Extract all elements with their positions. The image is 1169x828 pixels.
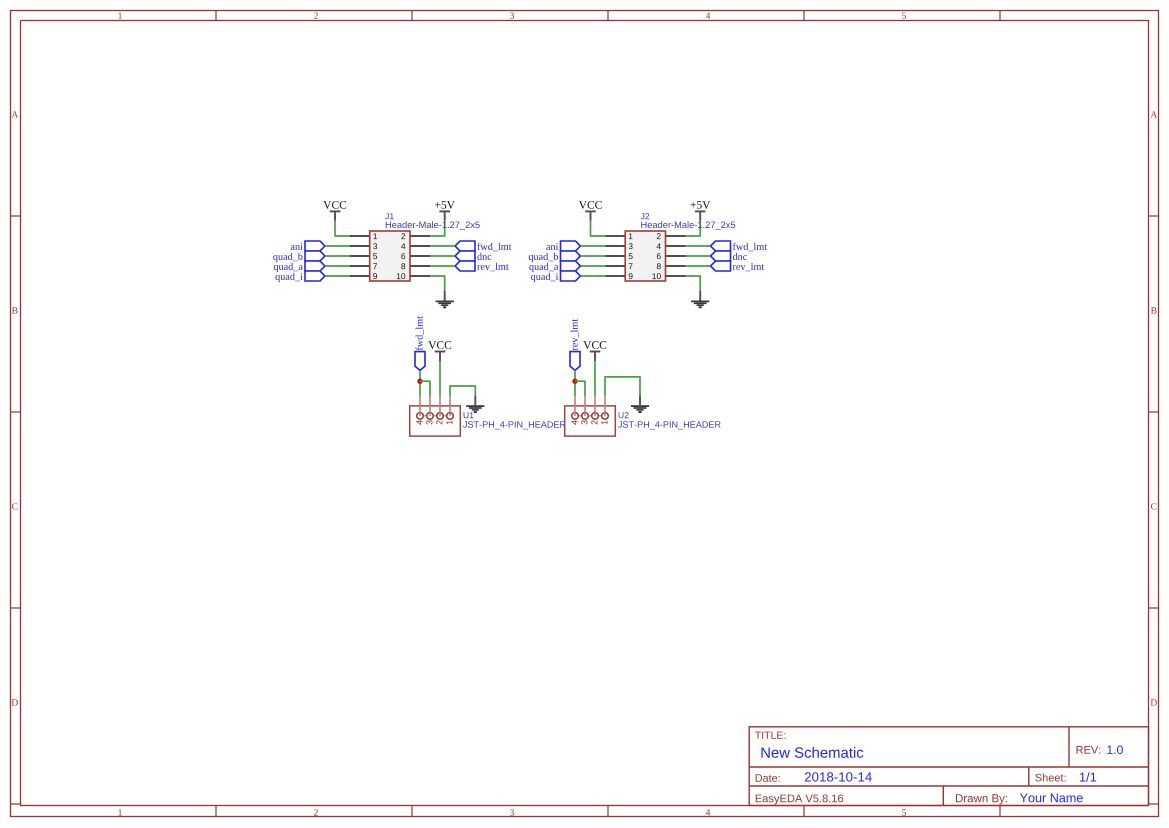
- wire quad_a to J2: [581, 265, 606, 267]
- label U2 JST-PH_4-PIN_HEADER: [618, 412, 721, 429]
- junction (U1): [417, 379, 422, 384]
- frame zone numbers top: [118, 13, 906, 19]
- ground (J2): [691, 291, 709, 308]
- wire rev_lmt to J2: [686, 265, 711, 267]
- wire fwd_lmt to U1 pin4: [419, 370, 421, 396]
- label U1 JST-PH_4-PIN_HEADER: [463, 412, 566, 429]
- netport quad_a (J2): [529, 261, 580, 272]
- netport fwd_lmt (vertical, U1): [415, 316, 425, 370]
- wire U1 pin1 to ground: [450, 386, 475, 396]
- title date value: [805, 772, 872, 781]
- pin pads of U2: [572, 396, 609, 419]
- wire rev_lmt to J1: [430, 265, 455, 267]
- wire VCC to J2 pin1: [591, 221, 606, 236]
- pin numbers of U2: [571, 420, 607, 424]
- wire +5V to J2 pin2: [686, 221, 701, 236]
- wire quad_b to J2: [581, 255, 606, 257]
- title TITLE:: [755, 732, 785, 739]
- title New Schematic: [761, 747, 863, 758]
- wire ani to J2: [581, 245, 606, 247]
- wire junction to U1 pin3: [420, 381, 430, 396]
- title drawn by value: [1020, 794, 1083, 803]
- netport quad_a (J1): [274, 261, 325, 272]
- netport quad_i (J2): [531, 271, 580, 282]
- title block lines: [749, 727, 1148, 806]
- netport dnc (J2): [711, 251, 747, 261]
- pin numbers of J2: [629, 233, 661, 279]
- frame zone letters right: [1150, 111, 1157, 705]
- wire junction to U2 pin3: [575, 381, 585, 396]
- wire J1 pin10 to ground: [430, 276, 445, 291]
- title sheet value 1/1: [1080, 772, 1096, 781]
- power flag +5V (J1): [435, 201, 455, 221]
- title Sheet:: [1035, 773, 1065, 781]
- power flag VCC (U2): [583, 341, 606, 361]
- wire fwd_lmt to J1: [430, 245, 455, 247]
- wire U2 pin1 to ground: [605, 377, 640, 396]
- netport fwd_lmt (J2): [711, 241, 768, 251]
- wire quad_i to J2: [581, 275, 606, 277]
- pins of J2: [606, 236, 686, 276]
- wire VCC to U1 pin2: [439, 361, 441, 396]
- netport rev_lmt (J1): [455, 261, 509, 271]
- pins of U2: [571, 415, 609, 417]
- frame zone numbers bottom: [118, 809, 906, 815]
- connector U2 body: [565, 406, 616, 436]
- connector J2 body: [625, 231, 665, 281]
- ground (U1): [466, 396, 484, 413]
- netport rev_lmt (J2): [711, 261, 765, 271]
- netport fwd_lmt (J1): [455, 241, 512, 251]
- wire VCC to J1 pin1: [335, 221, 350, 236]
- wire +5V to J1 pin2: [430, 221, 445, 236]
- title block outline: [749, 727, 1148, 806]
- title Drawn By:: [956, 794, 1007, 804]
- netport ani (J1): [291, 241, 325, 251]
- title rev value 1.0: [1107, 745, 1123, 754]
- pins of J1: [350, 236, 430, 276]
- wire VCC to U2 pin2: [594, 361, 596, 396]
- netport dnc (J1): [455, 251, 491, 261]
- junction (U2): [572, 379, 577, 384]
- netport quad_b (J2): [529, 251, 581, 262]
- netport quad_b (J1): [273, 251, 325, 262]
- title REV:: [1077, 746, 1101, 754]
- power flag VCC (J1): [323, 201, 346, 221]
- pin numbers of U1: [416, 420, 452, 424]
- wire rev_lmt to U2 pin4: [574, 370, 576, 396]
- ground (J1): [436, 291, 454, 308]
- wire J2 pin10 to ground: [686, 276, 701, 291]
- connector J1 body: [370, 231, 410, 281]
- pin numbers of J1: [373, 233, 405, 279]
- frame zone letters left: [11, 111, 18, 705]
- wire dnc to J2: [686, 255, 711, 257]
- power flag VCC (U1): [428, 341, 451, 361]
- label J1 Header-Male-1.27_2x5: [385, 213, 480, 230]
- wire ani to J1: [325, 245, 350, 247]
- wire quad_a to J1: [325, 265, 350, 267]
- power flag +5V (J2): [691, 201, 711, 221]
- label J2 Header-Male-1.27_2x5: [641, 213, 736, 230]
- wire fwd_lmt to J2: [686, 245, 711, 247]
- pins of U1: [416, 415, 454, 417]
- title Date:: [756, 774, 780, 782]
- connector U1 body: [410, 406, 461, 436]
- power flag VCC (J2): [579, 201, 602, 221]
- pin pads of U1: [417, 396, 454, 419]
- netport quad_i (J1): [276, 271, 325, 282]
- ground (U2): [631, 396, 649, 413]
- netport ani (J2): [546, 241, 580, 251]
- title EasyEDA version: [756, 794, 843, 804]
- wire quad_i to J1: [325, 275, 350, 277]
- wire quad_b to J1: [325, 255, 350, 257]
- netport rev_lmt (vertical, U2): [570, 319, 580, 370]
- wire dnc to J1: [430, 255, 455, 257]
